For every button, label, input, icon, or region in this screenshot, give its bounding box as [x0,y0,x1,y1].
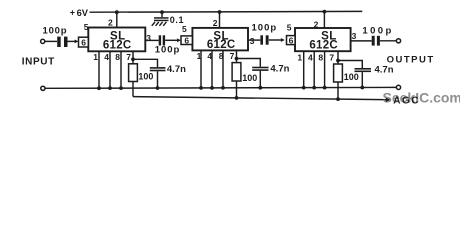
pin label 5 of U2 [182,24,187,34]
capacitor C3 100p interstage 1-2 [159,35,165,45]
node +6V label [70,7,89,17]
junction dot U2 pin 7 node [235,57,239,61]
junction dot rail U3 pin1 [302,86,306,90]
capacitor C5 100p output coupling [372,36,380,46]
svg-text:+: + [70,7,75,17]
svg-text:5: 5 [182,24,187,34]
node ground terminal right [396,85,400,89]
wire U2 pin 4 down [211,50,213,88]
svg-text:OUTPUT: OUTPUT [387,55,435,66]
svg-text:1: 1 [297,52,302,62]
pin label 3 of U2 [250,36,255,46]
svg-text:612C: 612C [103,40,132,52]
svg-text:1: 1 [93,52,98,62]
wire U1 pin 1 down [98,51,100,88]
node INPUT terminal [41,39,45,43]
wire U3 pin 8 down [324,51,326,87]
wire ground rail [45,86,396,89]
wire U1 pin 8 down [120,51,122,88]
pin box 6 of U2 [181,35,192,45]
junction dot rail U3 pin8 [323,86,327,90]
pin label 2 of U3 [314,19,319,29]
junction dot rail above U2 pin 2 [218,10,222,14]
wire C5 to output terminal [380,40,397,42]
value label 100 R1 [138,72,153,82]
wire U2 pin 7 down [236,50,238,62]
junction dot rail above C2 0.1 [160,10,164,14]
svg-text:100p: 100p [43,25,68,36]
svg-text:AGC: AGC [393,96,420,107]
resistor R1 100 [129,64,138,82]
node AGC arrowhead [386,98,391,102]
svg-text:100p: 100p [252,23,278,34]
junction dot AGC bus R2 [235,96,239,100]
svg-text:3: 3 [250,36,255,46]
node INPUT label [22,56,55,67]
resistor R3 100 [334,64,343,82]
pin label 7 of U1 [126,52,131,62]
wire U2 pin7 node to C7 [237,59,261,67]
junction dot rail above U3 pin 2 [323,10,327,14]
svg-text:100p: 100p [155,44,181,55]
wire U2 pin 3 to C4 [248,39,260,41]
svg-text:8: 8 [219,51,224,61]
junction dot rail U2 pin1 [199,86,203,90]
junction dot rail C6 [156,86,160,90]
pin label 7 of U3 [329,52,334,62]
wire U2 pin 1 down [200,50,202,88]
wire U3 pin 7 down [337,51,339,64]
wire U3 pin 1 down [303,51,305,87]
svg-text:612C: 612C [309,39,338,51]
pin label 7 of U2 [230,51,235,61]
pin label 8 of U2 [219,51,224,61]
svg-text:7: 7 [126,52,131,62]
op-amp U3 SL612C [295,28,351,51]
wire U1 pin 3 to C3 [145,39,158,41]
pin label 4 of U1 [104,52,109,62]
capacitor C7 4.7n stage 2 [252,67,268,88]
svg-text:4.7n: 4.7n [375,65,394,76]
pin label 8 of U3 [318,52,323,62]
pin label 3 of U1 [146,33,151,43]
pin label 4 of U3 [308,52,313,62]
junction dot rail U1 pin8 [119,86,123,90]
wire U1 pin 4 down [109,51,111,88]
resistor R2 100 [232,63,241,81]
node OUTPUT terminal [396,39,400,43]
wire U1 pin 7 down [132,51,134,64]
value label 0.1 [170,15,184,25]
wire U3 pin 3 to C5 [351,40,372,42]
wire C1 to U1 pin 6 with arrowhead [68,40,79,44]
wire R2 bottom to AGC bus [236,81,238,98]
svg-text:100: 100 [344,72,359,82]
pin label 1 of U2 [197,51,202,61]
node OUTPUT label [387,55,435,66]
pin box 6 of U3 [287,35,296,45]
pin box 6 of U1 [79,37,89,47]
svg-text:4: 4 [207,51,212,61]
svg-text:8: 8 [318,52,323,62]
svg-text:INPUT: INPUT [22,56,55,67]
pin label 4 of U2 [207,51,212,61]
node AGC label [393,96,420,107]
junction dot rail above U1 pin 2 [115,10,119,14]
svg-text:2: 2 [213,18,218,28]
wire R3 bottom to AGC bus [337,82,339,99]
svg-text:100p: 100p [362,26,393,37]
svg-text:3: 3 [352,31,357,41]
svg-text:7: 7 [230,51,235,61]
value label 100p C4 [252,23,278,34]
wire U3 pin7 node to C8 [338,61,362,69]
svg-text:4.7n: 4.7n [270,64,289,75]
value label 4.7n C8 [375,65,394,76]
wire AGC bus [133,97,387,100]
pin label 8 of U1 [115,52,120,62]
wire U3 pin 4 down [313,51,315,87]
value label 4.7n C6 [167,64,186,75]
svg-text:1: 1 [197,51,202,61]
svg-text:5: 5 [84,22,89,32]
svg-text:612C: 612C [207,39,236,51]
pin label 2 of U2 [213,18,218,28]
svg-text:100: 100 [138,72,153,82]
value label 4.7n C7 [270,64,289,75]
wire U1 pin7 node to C6 [133,59,158,67]
pin label 1 of U3 [297,52,302,62]
wire U2 pin 8 down [222,50,224,88]
junction dot rail U1 pin4 [108,86,112,90]
svg-text:2: 2 [108,18,113,28]
junction dot AGC bus R3 [336,97,340,101]
svg-text:6: 6 [289,35,294,45]
svg-text:100: 100 [242,73,257,83]
junction dot rail C7 [258,86,262,90]
op-amp U1 SL612C [88,28,145,52]
op-amp U2 SL612C [192,28,248,51]
junction dot U1 pin 7 node [131,57,135,61]
watermark SeekIC.com [383,90,460,106]
wire R1 bottom to AGC bus [132,82,134,97]
wire U3 pin 2 to rail [323,12,325,29]
capacitor C8 4.7n stage 3 [355,68,372,88]
pin label 3 of U3 [352,31,357,41]
junction dot rail U2 pin8 [221,86,225,90]
svg-text:4: 4 [104,52,109,62]
wire input terminal to C1 [45,40,57,42]
junction dot U3 pin 7 node [336,59,340,63]
value label 100 R3 [344,72,359,82]
value label 100p C1 [43,25,68,36]
junction dot rail U1 pin1 [97,86,101,90]
value label 100p C3 [155,44,181,55]
junction dot rail U2 pin4 [210,86,214,90]
junction dot rail C8 [360,86,364,90]
capacitor C4 100p interstage 2-3 [260,35,268,44]
svg-text:8: 8 [115,52,120,62]
pin label 1 of U1 [93,52,98,62]
svg-text:2: 2 [314,19,319,29]
wire +6V rail [90,10,363,13]
pin label 5 of U3 [287,23,292,33]
wire U1 pin 2 to rail [116,12,118,28]
ground chassis symbol under C2 [152,22,167,26]
capacitor C6 4.7n stage 1 [150,67,166,88]
svg-text:4: 4 [308,52,313,62]
svg-text:6: 6 [81,37,86,47]
svg-text:6V: 6V [77,8,89,18]
svg-text:3: 3 [146,33,151,43]
svg-text:7: 7 [329,52,334,62]
pin label 2 of U1 [108,18,113,28]
svg-text:4.7n: 4.7n [167,64,186,75]
capacitor C1 100p input coupling [57,37,67,47]
wire C3 to U2 pin 6 with arrowhead [165,38,181,42]
svg-text:6: 6 [184,35,189,45]
value label 100p C5 [362,26,393,37]
pin label 5 of U1 [84,22,89,32]
wire C4 to U3 pin 6 with arrowhead [269,38,285,42]
svg-text:5: 5 [287,23,292,33]
node ground terminal left [41,86,45,90]
value label 100 R2 [242,73,257,83]
wire U2 pin 2 to rail [219,12,221,28]
junction dot rail U3 pin4 [312,86,316,90]
capacitor C2 0.1 decoupling [154,12,169,21]
